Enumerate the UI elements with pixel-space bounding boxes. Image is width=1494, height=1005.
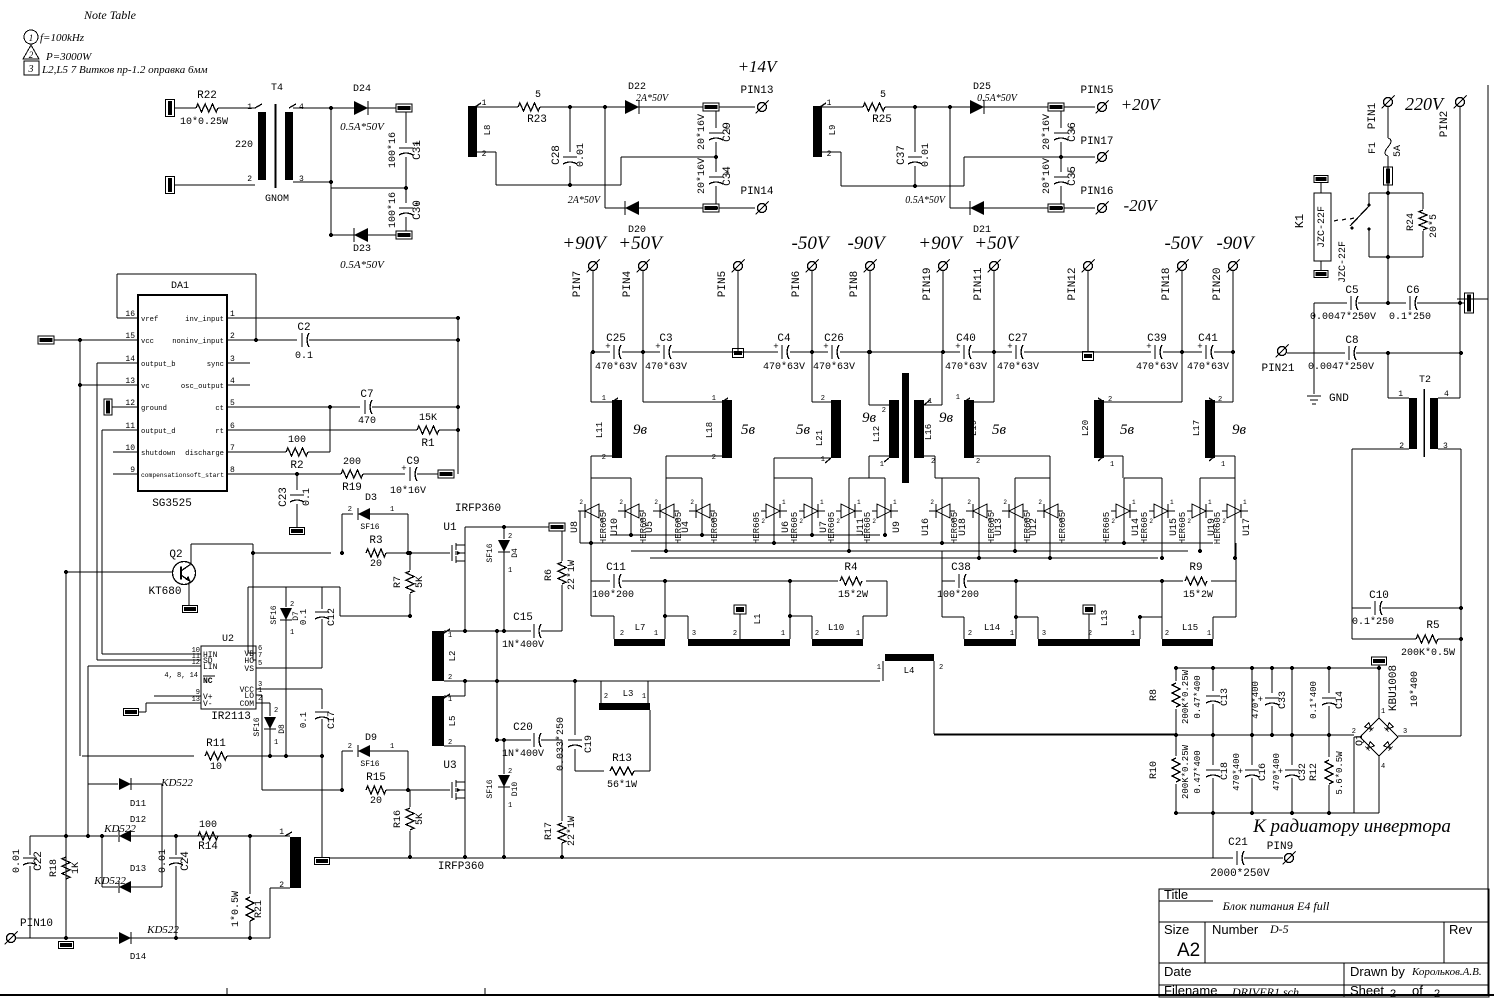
svg-text:7: 7: [258, 652, 262, 660]
svg-text:2: 2: [602, 454, 606, 462]
svg-text:-20V: -20V: [1123, 196, 1159, 215]
svg-text:0.1: 0.1: [299, 712, 309, 728]
svg-text:output_b: output_b: [141, 361, 176, 369]
svg-text:3: 3: [692, 630, 696, 638]
svg-text:2: 2: [761, 518, 765, 525]
svg-text:2: 2: [604, 693, 608, 701]
svg-text:JZC-22F: JZC-22F: [1338, 241, 1349, 283]
svg-text:A2: A2: [1177, 940, 1200, 961]
svg-text:C3: C3: [659, 333, 672, 345]
svg-text:12: 12: [192, 659, 200, 667]
svg-text:5в: 5в: [796, 422, 811, 438]
svg-text:C40: C40: [956, 333, 976, 345]
svg-text:HER605: HER605: [1102, 512, 1112, 544]
svg-text:D-5: D-5: [1269, 922, 1289, 936]
svg-text:1: 1: [1208, 499, 1212, 506]
svg-text:+14V: +14V: [738, 57, 779, 76]
svg-text:C4: C4: [777, 333, 791, 345]
svg-text:2: 2: [348, 743, 352, 751]
svg-text:L9: L9: [828, 125, 838, 136]
svg-text:2: 2: [815, 630, 819, 638]
svg-text:L7: L7: [635, 623, 646, 633]
svg-text:D22: D22: [628, 82, 646, 93]
svg-text:5A: 5A: [1393, 145, 1404, 157]
svg-text:PIN8: PIN8: [849, 271, 861, 297]
svg-text:C39: C39: [1147, 333, 1167, 345]
svg-text:Note Table: Note Table: [83, 8, 137, 22]
svg-text:R9: R9: [1189, 562, 1202, 574]
svg-text:20*16V: 20*16V: [1041, 114, 1053, 150]
svg-text:20: 20: [370, 559, 382, 570]
svg-text:1: 1: [988, 518, 992, 525]
svg-text:2: 2: [508, 768, 512, 776]
svg-text:C14: C14: [1335, 691, 1346, 709]
svg-text:U2: U2: [222, 634, 234, 645]
svg-text:22*1W: 22*1W: [566, 816, 578, 846]
svg-text:SG3525: SG3525: [152, 498, 192, 510]
svg-text:GND: GND: [1329, 393, 1349, 405]
svg-text:K1: K1: [1293, 214, 1307, 228]
svg-text:10*400: 10*400: [1409, 671, 1421, 707]
svg-text:sync: sync: [207, 361, 224, 369]
svg-text:U5: U5: [645, 521, 656, 533]
svg-text:L2,L5 7 Витков пр-1.2 оправка: L2,L5 7 Витков пр-1.2 оправка 6мм: [41, 64, 208, 76]
svg-text:PIN20: PIN20: [1212, 267, 1224, 300]
svg-text:R25: R25: [872, 114, 892, 126]
svg-text:-90V: -90V: [848, 233, 887, 254]
svg-text:1: 1: [448, 696, 452, 704]
svg-text:U18: U18: [958, 518, 969, 536]
svg-text:HER605: HER605: [599, 512, 609, 544]
svg-text:SF16: SF16: [360, 523, 379, 532]
svg-text:Корольков.А.В.: Корольков.А.В.: [1411, 966, 1482, 978]
svg-text:R14: R14: [198, 841, 218, 853]
svg-text:D24: D24: [353, 84, 371, 95]
svg-text:1: 1: [600, 518, 604, 525]
svg-text:D10: D10: [511, 782, 520, 797]
svg-text:L11: L11: [595, 422, 605, 438]
svg-text:9в: 9в: [1232, 422, 1247, 438]
svg-text:2A*50V: 2A*50V: [636, 93, 670, 104]
svg-text:R8: R8: [1149, 689, 1160, 701]
svg-text:R17: R17: [544, 822, 555, 840]
svg-text:HER605: HER605: [1058, 512, 1068, 544]
svg-text:1: 1: [711, 518, 715, 525]
svg-text:1: 1: [390, 743, 394, 751]
svg-text:C17: C17: [327, 711, 338, 729]
svg-text:HER605: HER605: [710, 512, 720, 544]
svg-text:L21: L21: [815, 430, 825, 446]
svg-text:T4: T4: [271, 83, 283, 94]
svg-text:U3: U3: [443, 760, 456, 772]
svg-text:IRFP360: IRFP360: [455, 503, 501, 515]
svg-text:+20V: +20V: [1121, 95, 1162, 114]
svg-text:U13: U13: [994, 518, 1005, 536]
svg-text:U1: U1: [443, 522, 457, 534]
svg-text:R12: R12: [1309, 763, 1320, 781]
svg-text:1: 1: [1221, 461, 1225, 469]
svg-text:3: 3: [28, 64, 34, 75]
svg-text:2: 2: [1003, 499, 1007, 506]
svg-text:9в: 9в: [939, 410, 954, 426]
svg-text:C8: C8: [1345, 335, 1358, 347]
svg-text:2: 2: [976, 458, 980, 466]
svg-text:1: 1: [675, 518, 679, 525]
svg-text:C21: C21: [1228, 837, 1248, 849]
svg-text:2: 2: [247, 175, 252, 184]
svg-text:shutdown: shutdown: [141, 450, 176, 458]
svg-text:C12: C12: [327, 608, 338, 626]
svg-text:2: 2: [939, 664, 943, 672]
svg-text:R7: R7: [393, 576, 404, 588]
svg-text:0.0047*250V: 0.0047*250V: [1308, 361, 1374, 373]
svg-text:L8: L8: [483, 125, 493, 136]
svg-text:+50V: +50V: [618, 233, 664, 254]
svg-text:2: 2: [654, 499, 658, 506]
svg-text:1*0.5W: 1*0.5W: [230, 891, 242, 927]
svg-text:HER605: HER605: [1178, 512, 1188, 544]
svg-text:-50V: -50V: [1165, 233, 1204, 254]
svg-text:SF16: SF16: [486, 779, 495, 798]
svg-text:1: 1: [279, 828, 284, 837]
svg-text:KD522: KD522: [93, 875, 126, 887]
svg-text:R21: R21: [254, 900, 265, 918]
svg-text:PIN12: PIN12: [1067, 267, 1079, 300]
svg-text:Rev: Rev: [1449, 922, 1473, 937]
svg-text:COM: COM: [240, 700, 255, 709]
svg-text:Size: Size: [1164, 922, 1189, 937]
svg-text:C26: C26: [824, 333, 844, 345]
svg-text:1: 1: [782, 499, 786, 506]
svg-text:D25: D25: [973, 82, 991, 93]
svg-text:C11: C11: [606, 562, 626, 574]
svg-text:R22: R22: [197, 90, 217, 102]
svg-text:D11: D11: [130, 799, 146, 809]
svg-text:C13: C13: [1220, 688, 1231, 706]
svg-text:DRIVER1.sch: DRIVER1.sch: [1231, 985, 1299, 999]
svg-text:1: 1: [1132, 499, 1136, 506]
svg-text:1: 1: [1131, 630, 1135, 638]
svg-text:22*1W: 22*1W: [566, 560, 578, 590]
svg-text:JZC-22F: JZC-22F: [1317, 206, 1328, 248]
svg-text:0.1*400: 0.1*400: [1309, 681, 1319, 719]
svg-text:2: 2: [290, 601, 294, 609]
svg-text:PIN16: PIN16: [1080, 186, 1113, 198]
svg-text:470*63V: 470*63V: [645, 361, 687, 373]
svg-text:R11: R11: [206, 738, 226, 750]
svg-text:D8: D8: [278, 724, 287, 734]
svg-text:0.1: 0.1: [299, 609, 309, 625]
svg-text:4: 4: [1381, 763, 1385, 771]
svg-text:Date: Date: [1164, 964, 1191, 979]
svg-text:C6: C6: [1406, 285, 1419, 297]
svg-text:C35: C35: [1067, 166, 1079, 186]
svg-text:C27: C27: [1008, 333, 1028, 345]
svg-text:2: 2: [348, 506, 352, 514]
svg-text:1: 1: [1024, 518, 1028, 525]
svg-text:2: 2: [579, 499, 583, 506]
svg-text:osc_output: osc_output: [181, 383, 224, 391]
svg-text:200K*0.25W: 200K*0.25W: [1181, 669, 1191, 724]
svg-text:1: 1: [857, 499, 861, 506]
svg-text:KT680: KT680: [148, 586, 181, 598]
svg-text:C37: C37: [896, 145, 908, 165]
svg-text:2: 2: [1222, 518, 1226, 525]
svg-text:C24: C24: [180, 851, 192, 871]
svg-text:C19: C19: [584, 735, 595, 753]
svg-text:vcc: vcc: [141, 338, 154, 346]
svg-text:C10: C10: [1369, 590, 1389, 602]
svg-text:5в: 5в: [992, 422, 1007, 438]
svg-text:PIN6: PIN6: [791, 271, 803, 297]
svg-text:1: 1: [880, 461, 884, 469]
svg-text:D23: D23: [353, 244, 371, 255]
svg-text:5: 5: [258, 660, 262, 668]
svg-text:2: 2: [1038, 499, 1042, 506]
svg-text:L5: L5: [448, 716, 458, 727]
svg-text:L3: L3: [623, 689, 634, 699]
svg-text:0.0047*250V: 0.0047*250V: [1310, 311, 1376, 323]
svg-text:1: 1: [893, 499, 897, 506]
svg-text:1: 1: [956, 394, 960, 402]
svg-text:U12: U12: [1029, 518, 1040, 536]
svg-text:+90V: +90V: [918, 233, 964, 254]
svg-text:9в: 9в: [862, 410, 877, 426]
svg-text:noninv_input: noninv_input: [172, 338, 224, 346]
svg-text:C5: C5: [1345, 285, 1358, 297]
svg-text:U17: U17: [1242, 518, 1253, 536]
svg-text:2: 2: [872, 518, 876, 525]
svg-text:1: 1: [1059, 518, 1063, 525]
svg-text:VS: VS: [244, 665, 254, 674]
svg-text:1: 1: [290, 629, 294, 637]
svg-text:100: 100: [199, 820, 217, 831]
svg-text:C36: C36: [1067, 122, 1079, 142]
svg-text:SF16: SF16: [486, 543, 495, 562]
svg-text:output_d: output_d: [141, 428, 176, 436]
svg-text:20*16V: 20*16V: [696, 114, 708, 150]
svg-text:C38: C38: [951, 562, 971, 574]
svg-text:PIN10: PIN10: [20, 918, 53, 930]
svg-text:15*2W: 15*2W: [838, 589, 868, 601]
svg-text:56*1W: 56*1W: [607, 779, 637, 791]
svg-text:R5: R5: [1426, 620, 1439, 632]
svg-text:L17: L17: [1192, 420, 1202, 436]
svg-text:PIN19: PIN19: [922, 267, 934, 300]
svg-text:R2: R2: [290, 460, 303, 472]
svg-text:PIN4: PIN4: [622, 270, 634, 297]
svg-text:PIN14: PIN14: [740, 186, 773, 198]
svg-text:1: 1: [1110, 461, 1114, 469]
svg-text:discharge: discharge: [185, 450, 224, 458]
svg-text:KD522: KD522: [103, 823, 136, 835]
svg-text:0.47*400: 0.47*400: [1193, 675, 1203, 718]
svg-text:1: 1: [274, 739, 278, 747]
svg-text:1: 1: [258, 687, 262, 695]
svg-text:P=3000W: P=3000W: [45, 51, 92, 63]
svg-text:PIN1: PIN1: [1367, 102, 1379, 129]
svg-text:-90V: -90V: [1217, 233, 1256, 254]
svg-text:2: 2: [619, 499, 623, 506]
svg-text:Q2: Q2: [169, 549, 182, 561]
svg-text:1N*400V: 1N*400V: [502, 748, 544, 760]
svg-text:15K: 15K: [419, 413, 437, 424]
svg-text:10: 10: [210, 762, 222, 773]
svg-text:470*63V: 470*63V: [763, 361, 805, 373]
svg-text:20*16V: 20*16V: [1041, 158, 1053, 194]
svg-text:0.5A*50V: 0.5A*50V: [905, 195, 947, 206]
svg-text:1: 1: [448, 632, 452, 640]
svg-text:C41: C41: [1198, 333, 1218, 345]
svg-text:2: 2: [882, 407, 886, 415]
svg-text:R23: R23: [527, 114, 547, 126]
svg-text:2: 2: [1187, 518, 1191, 525]
svg-text:L18: L18: [705, 422, 715, 438]
svg-text:T2: T2: [1419, 375, 1431, 386]
svg-text:R15: R15: [366, 772, 386, 784]
svg-text:compensation: compensation: [141, 472, 187, 479]
svg-text:0.01: 0.01: [576, 143, 587, 167]
svg-text:1: 1: [29, 33, 34, 43]
svg-text:DA1: DA1: [171, 281, 189, 292]
svg-text:2: 2: [1218, 396, 1222, 404]
svg-text:К радиатору инвертора: К радиатору инвертора: [1252, 816, 1451, 837]
svg-text:C7: C7: [360, 389, 373, 401]
svg-text:1: 1: [821, 456, 825, 464]
svg-text:9в: 9в: [633, 422, 648, 438]
svg-text:L16: L16: [924, 424, 934, 440]
svg-text:20*16V: 20*16V: [696, 158, 708, 194]
svg-text:2: 2: [733, 630, 737, 638]
svg-text:HER605: HER605: [1140, 512, 1150, 544]
svg-text:+50V: +50V: [974, 233, 1020, 254]
svg-text:0.033*250: 0.033*250: [555, 717, 567, 771]
svg-text:PIN2: PIN2: [1439, 111, 1451, 137]
svg-text:U4: U4: [681, 521, 692, 533]
svg-text:200K*0.25W: 200K*0.25W: [1181, 744, 1191, 799]
svg-text:470*63V: 470*63V: [945, 361, 987, 373]
svg-text:L1: L1: [753, 614, 763, 625]
svg-text:0.01: 0.01: [158, 849, 169, 873]
svg-text:C34: C34: [722, 166, 734, 186]
svg-text:5в: 5в: [741, 422, 756, 438]
svg-text:GNOM: GNOM: [265, 194, 289, 205]
svg-text:5K: 5K: [415, 813, 426, 825]
svg-text:0.5A*50V: 0.5A*50V: [340, 259, 385, 271]
svg-text:V-: V-: [203, 700, 213, 709]
svg-text:f=100kHz: f=100kHz: [40, 32, 85, 44]
svg-text:PIN13: PIN13: [740, 85, 773, 97]
svg-text:1: 1: [642, 693, 646, 701]
svg-text:NC: NC: [203, 677, 213, 686]
svg-text:5K: 5K: [415, 576, 426, 588]
svg-text:20: 20: [370, 796, 382, 807]
svg-text:vc: vc: [141, 383, 150, 391]
svg-text:1: 1: [951, 518, 955, 525]
svg-text:1: 1: [640, 518, 644, 525]
svg-text:200: 200: [343, 457, 361, 468]
svg-text:1: 1: [877, 664, 881, 672]
svg-text:C29: C29: [722, 122, 734, 142]
svg-text:Title: Title: [1164, 887, 1188, 902]
svg-text:C25: C25: [606, 333, 626, 345]
svg-text:0.1: 0.1: [302, 488, 313, 506]
svg-text:C18: C18: [1220, 762, 1231, 780]
svg-text:PIN11: PIN11: [973, 267, 985, 300]
svg-text:2: 2: [1165, 630, 1169, 638]
svg-text:1: 1: [1381, 708, 1385, 716]
svg-text:5.6*0.5W: 5.6*0.5W: [1335, 751, 1345, 795]
svg-text:LIN: LIN: [203, 663, 218, 672]
svg-text:C20: C20: [513, 722, 533, 734]
svg-text:PIN17: PIN17: [1080, 136, 1113, 148]
svg-text:3: 3: [1403, 728, 1407, 736]
svg-text:L19: L19: [969, 420, 979, 436]
svg-text:R19: R19: [342, 482, 362, 494]
svg-text:5: 5: [880, 90, 886, 101]
svg-text:R1: R1: [421, 438, 435, 450]
svg-text:R18: R18: [49, 859, 60, 877]
svg-text:0.1*250: 0.1*250: [1352, 616, 1394, 628]
svg-text:C31: C31: [412, 140, 424, 160]
svg-text:L2: L2: [448, 651, 458, 662]
svg-text:0.01: 0.01: [12, 849, 23, 873]
svg-text:2: 2: [1108, 396, 1112, 404]
svg-text:C23: C23: [278, 487, 290, 507]
svg-text:L14: L14: [984, 623, 1000, 633]
svg-text:D9: D9: [365, 733, 377, 744]
svg-text:HER605: HER605: [752, 512, 762, 544]
svg-text:1: 1: [1010, 630, 1014, 638]
svg-text:1: 1: [508, 567, 512, 575]
svg-text:C22: C22: [33, 851, 45, 871]
svg-text:Блок питания Е4 full: Блок питания Е4 full: [1222, 899, 1330, 913]
svg-text:2: 2: [836, 518, 840, 525]
svg-text:SF16: SF16: [253, 717, 262, 736]
svg-text:1: 1: [856, 630, 860, 638]
svg-text:0.5A*50V: 0.5A*50V: [977, 93, 1019, 104]
svg-text:HER605: HER605: [1213, 512, 1223, 544]
svg-text:1K: 1K: [71, 862, 82, 874]
svg-text:HER605: HER605: [790, 512, 800, 544]
svg-text:ground: ground: [141, 405, 167, 413]
svg-text:SF16: SF16: [270, 605, 279, 624]
svg-text:0.1*250: 0.1*250: [1389, 311, 1431, 323]
svg-text:rt: rt: [215, 428, 224, 436]
svg-text:2: 2: [968, 630, 972, 638]
svg-text:0.1: 0.1: [295, 351, 313, 362]
svg-text:470*400: 470*400: [1232, 753, 1242, 791]
svg-text:2: 2: [799, 518, 803, 525]
svg-text:IRFP360: IRFP360: [438, 861, 484, 873]
svg-text:C28: C28: [551, 145, 563, 165]
svg-text:C30: C30: [412, 200, 424, 220]
svg-text:2A*50V: 2A*50V: [568, 195, 602, 206]
svg-text:5: 5: [535, 90, 541, 101]
svg-text:2: 2: [274, 707, 278, 715]
svg-text:2: 2: [1111, 518, 1115, 525]
svg-text:D3: D3: [365, 493, 377, 504]
svg-text:C15: C15: [513, 612, 533, 624]
svg-text:100*200: 100*200: [592, 589, 634, 601]
svg-text:L20: L20: [1081, 420, 1091, 436]
svg-text:PIN21: PIN21: [1261, 363, 1294, 375]
svg-text:220: 220: [235, 140, 253, 151]
svg-text:1: 1: [1243, 499, 1247, 506]
svg-text:L13: L13: [1100, 610, 1110, 626]
svg-text:20*5: 20*5: [1428, 214, 1440, 238]
svg-text:470*63V: 470*63V: [595, 361, 637, 373]
